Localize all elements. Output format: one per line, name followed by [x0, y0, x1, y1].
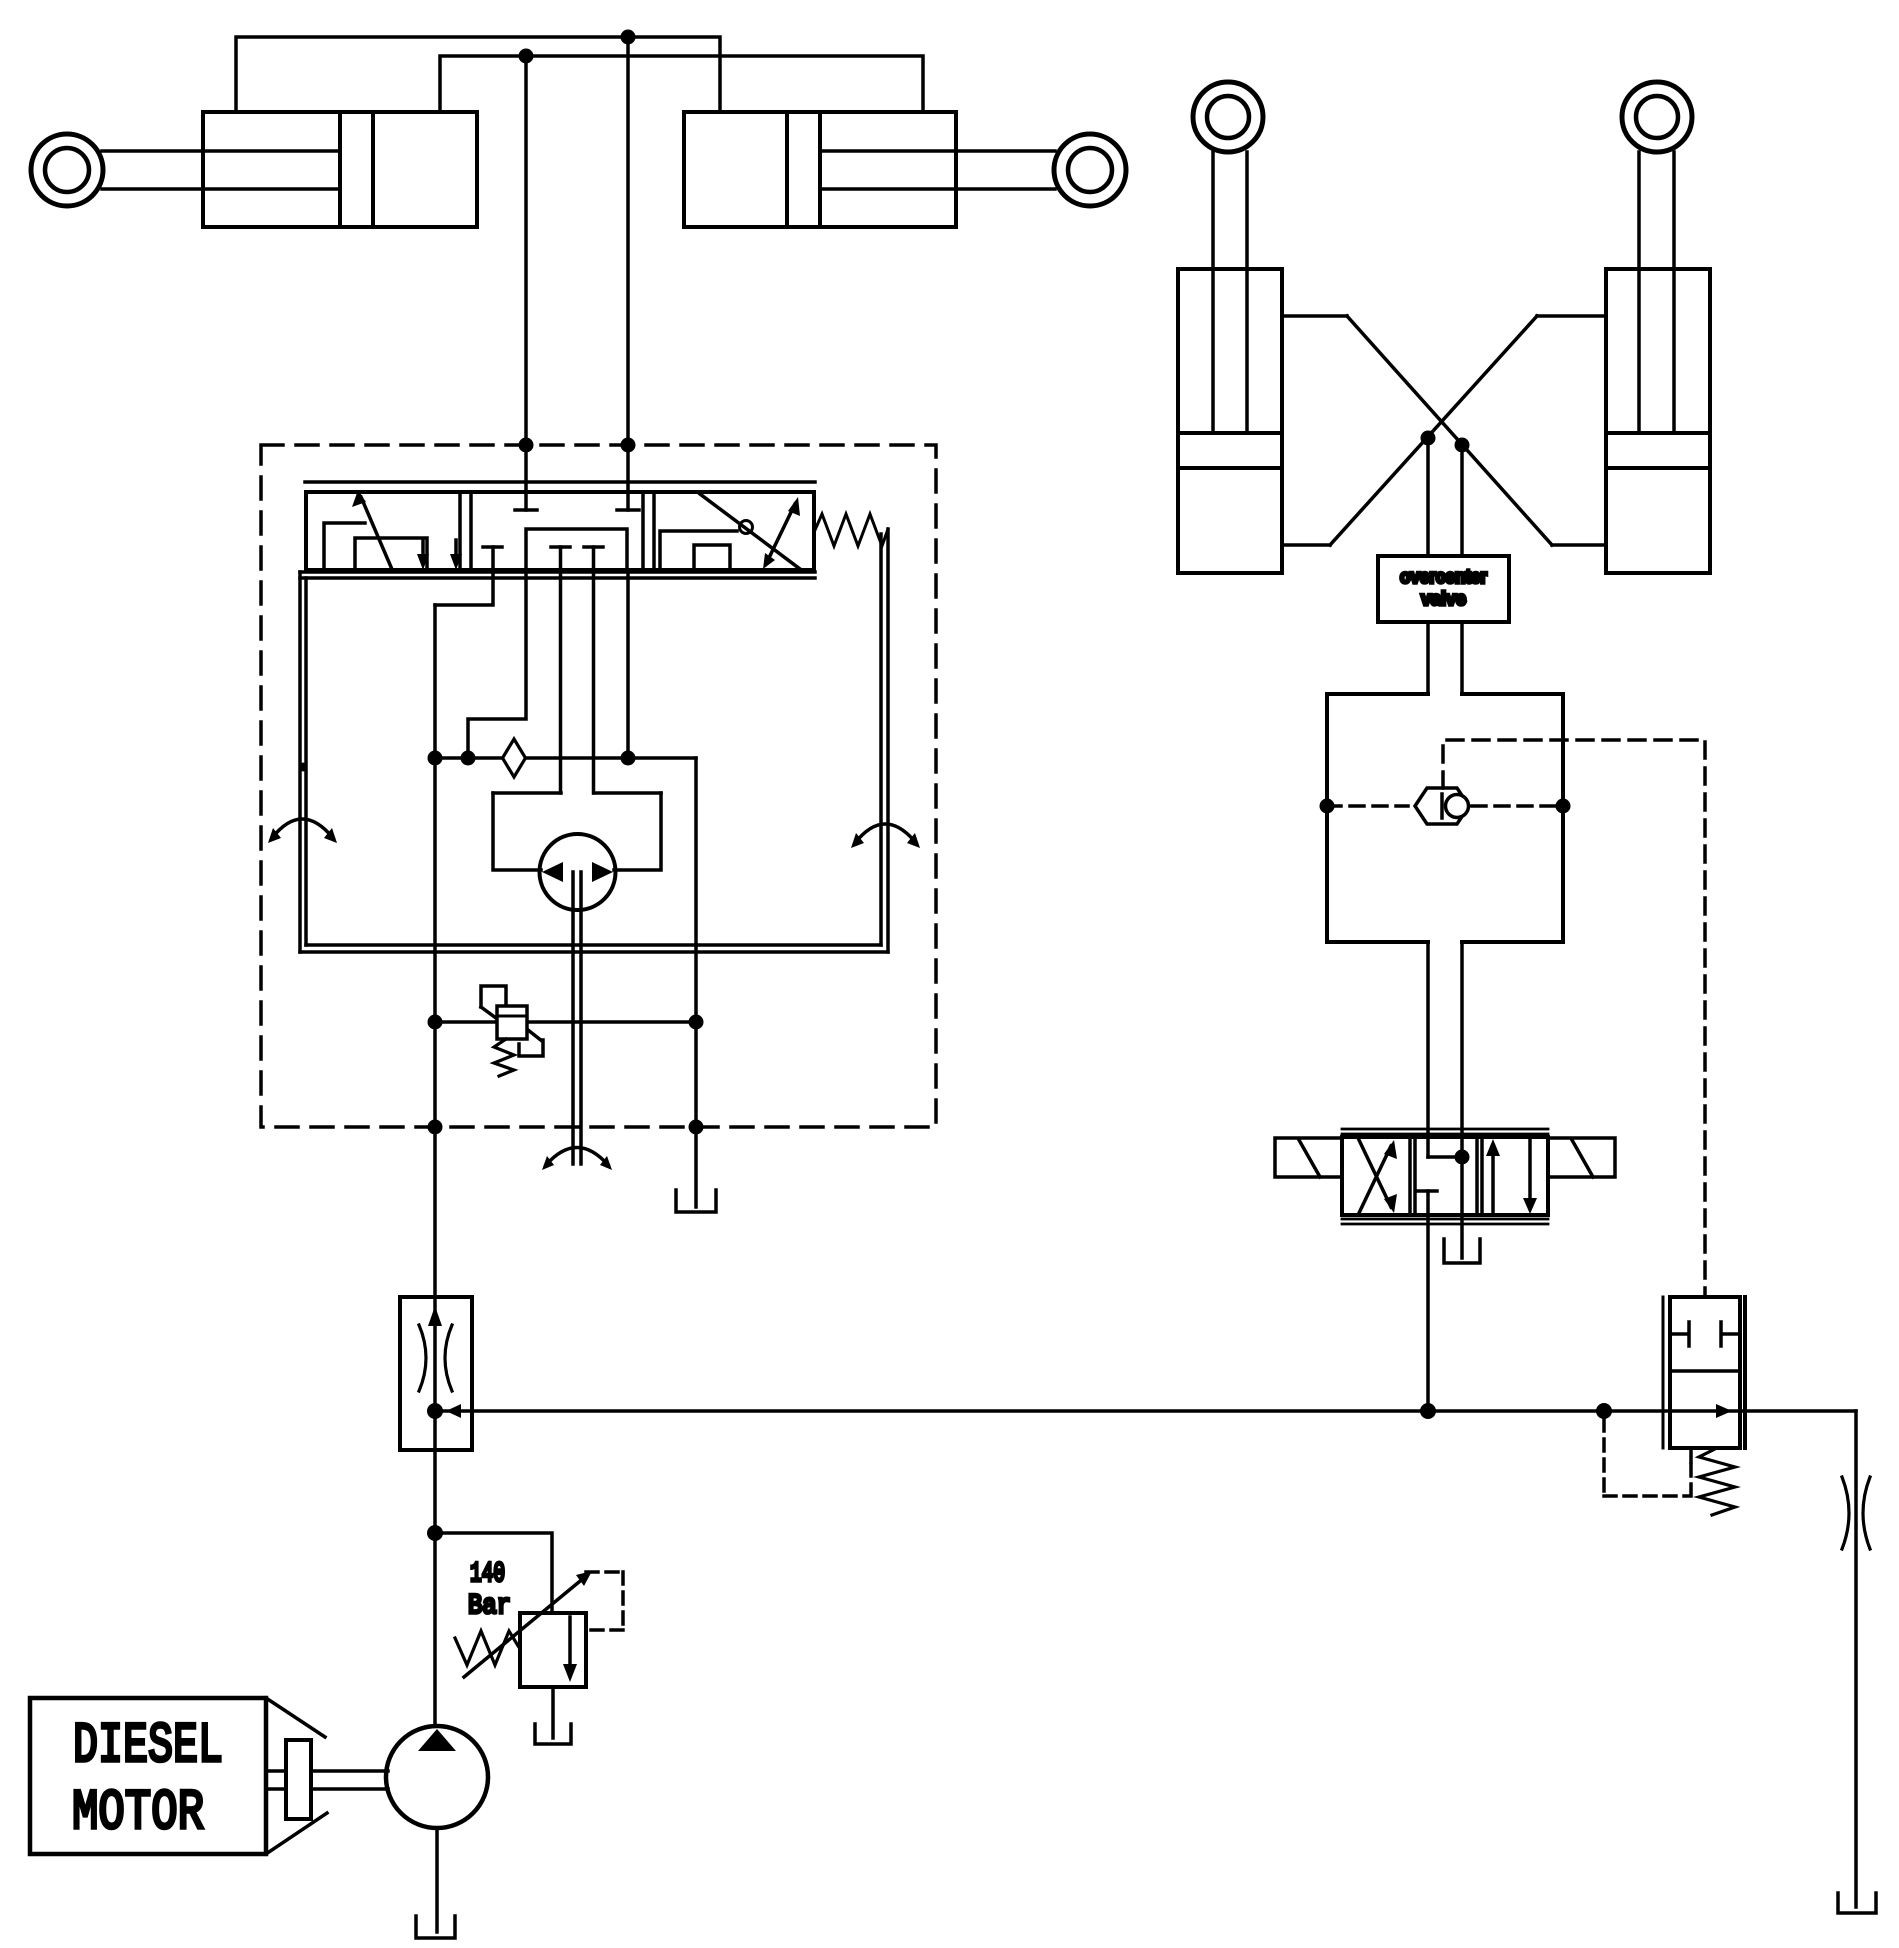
pump P body — [386, 1726, 488, 1828]
tank symbol T4 under DV1 — [1444, 1239, 1480, 1263]
node: tick on left housing edge — [299, 763, 308, 772]
wire: cross diagonal CYL3-top to CYL4-bottom — [1347, 316, 1552, 545]
cylinder CYL3 piston — [1178, 433, 1282, 468]
pilot check block housing — [1327, 694, 1563, 942]
node: junction relief gallery left — [428, 1015, 443, 1030]
wire: horizontal gallery with check valve — [435, 756, 696, 760]
wire: check block to directional valve — [1428, 942, 1462, 1258]
cylinder CYL1 piston — [340, 112, 373, 227]
valve V1 left section: pilot path — [324, 523, 365, 570]
flow control valve FC1 body — [400, 1297, 472, 1450]
valve V1: return spring — [815, 514, 888, 546]
relief valve RV2 pilot dashes — [586, 1572, 623, 1630]
wire: motor drain double line — [573, 872, 581, 1164]
compensator PC1: position divider — [1670, 1369, 1740, 1373]
node: junction inside FC1 — [427, 1403, 443, 1419]
valve V1 left section: down arrow 1 — [421, 540, 425, 562]
wire: cross diagonal CYL4-top to CYL3-bottom — [1330, 316, 1537, 545]
valve V1: proportional directional valve body — [306, 492, 814, 570]
directional valve DV1: left lever wing — [1275, 1138, 1342, 1177]
arrow into FC1 on main line — [446, 1404, 461, 1418]
wire: motor line b — [592, 547, 596, 793]
valve V1 centre: blocked port T for line B — [617, 508, 639, 512]
svg-text:140: 140 — [470, 1559, 505, 1590]
valve V1 right section: roller circle — [740, 521, 753, 534]
tank symbol T5 — [1838, 1893, 1876, 1913]
pilot line (dashed) inside block — [1327, 804, 1563, 808]
valve V1 centre: blocked port T for line A — [515, 508, 537, 512]
wire: centre port down to main line — [1426, 1191, 1430, 1411]
node: junction DV1 drop on main line — [1420, 1403, 1436, 1419]
valve V1 centre: port T motor a — [551, 545, 570, 549]
wire: pump suction — [435, 1828, 439, 1932]
shaft coupling — [286, 1740, 311, 1819]
directional valve DV1: right lever wing — [1548, 1138, 1615, 1177]
directional valve DV1: parallel arrows right section — [1491, 1146, 1495, 1215]
compensator PC1: flow arrow lower position — [1716, 1404, 1732, 1418]
metering motor M1 — [540, 834, 616, 910]
node: junction relief gallery right — [689, 1015, 704, 1030]
gerotor loop: side and bottom edges — [493, 793, 661, 870]
wire: main left drop x=435 — [433, 605, 437, 1726]
node: junction in valve centre — [1455, 1150, 1470, 1165]
valve V1 centre: inner box — [526, 529, 627, 570]
cylinder CYL3 barrel — [1178, 269, 1282, 573]
pilot operated check valve CV2 — [1415, 788, 1469, 824]
relief valve RV1 bottom-right flag — [519, 1040, 543, 1056]
node: junction gallery/P2 — [461, 751, 476, 766]
node: dot where line B crosses dashed top — [621, 438, 636, 453]
directional valve DV1: crossed arrows left section — [1359, 1146, 1391, 1213]
svg-text:DIESEL: DIESEL — [73, 1715, 223, 1779]
tank symbol T3 — [416, 1916, 455, 1938]
compensator PC1: pilot dashed bracket — [1604, 1419, 1691, 1496]
housing: bottom double rail — [300, 945, 888, 952]
directional valve DV1: section dividers — [1410, 1137, 1482, 1215]
restrictor R1 on right drop — [1842, 1477, 1870, 1549]
valve V1: section dividers — [460, 492, 654, 570]
cylinder CYL2 barrel — [684, 112, 956, 227]
cylinder CYL4 barrel — [1606, 269, 1710, 573]
valve V1: pilot rail above body — [305, 480, 815, 484]
node: pilot junction right — [1556, 799, 1571, 814]
wire: connector inside valve centre — [1428, 1155, 1462, 1159]
relief valve RV2 body — [520, 1613, 586, 1687]
cylinder CYL2 piston — [787, 112, 820, 227]
pilot dashed line to compensator — [1443, 740, 1705, 1297]
wire: port P2 down from valve, jog to junction — [468, 570, 526, 758]
cylinder CYL2 rod eye — [1054, 134, 1126, 206]
valve V1 centre: port T left — [483, 545, 502, 549]
wire: main pressure line to the right — [435, 1409, 1856, 1413]
wire: overcenter to check block — [1428, 622, 1462, 694]
svg-text:valve: valve — [1421, 589, 1466, 610]
cylinder CYL4 piston — [1606, 433, 1710, 468]
node: junction compensator pilot on main line — [1596, 1403, 1612, 1419]
flow control FC1: restrictor arcs — [419, 1325, 452, 1391]
overcenter valve box — [1378, 556, 1509, 622]
relief valve RV2 spring — [455, 1631, 520, 1665]
wire: line B down to steering valve — [626, 37, 630, 510]
valve V1 right section: long diagonal — [700, 494, 800, 569]
directional valve DV1: bottom rails — [1342, 1219, 1548, 1224]
directional valve DV1: body — [1342, 1137, 1548, 1215]
housing: upper rails below valve — [300, 572, 815, 578]
wire: motor line a — [559, 547, 563, 793]
relief valve RV1 top-left flag — [481, 986, 506, 1007]
gerotor loop: top edge segments — [493, 791, 661, 795]
wire: CYL3 lower port stub — [1282, 543, 1330, 547]
mechanical rotation arrow left — [272, 819, 333, 838]
valve V1 left section: proportional arrow — [361, 497, 391, 567]
compensator PC1: spring — [1699, 1448, 1735, 1515]
diesel motor box — [30, 1698, 266, 1854]
tank symbol T2 — [535, 1724, 571, 1744]
wire: right drop to tank — [694, 758, 698, 1207]
mechanical rotation arrow on drain — [546, 1148, 608, 1166]
cylinder CYL4 rod — [1639, 152, 1674, 433]
wire: lower cross line (left cap port to right rod port) — [440, 56, 923, 112]
cylinder CYL1 rod eye — [31, 134, 103, 206]
valve V1 left section: solenoid box — [355, 538, 427, 570]
directional valve DV1: top rails — [1342, 1129, 1548, 1134]
check valve CV1 (diamond) — [503, 739, 526, 777]
cylinder CYL2 rod — [820, 151, 1055, 189]
wire: CYL4 lower port stub — [1552, 543, 1606, 547]
node: dot where tank drop crosses dashed bottom — [689, 1120, 704, 1135]
wire: RV2 to tank — [551, 1687, 555, 1738]
flow control FC1: up arrow — [428, 1306, 442, 1326]
node: junction on diagonal (right drop) — [1455, 438, 1470, 453]
svg-text:MOTOR: MOTOR — [72, 1782, 204, 1846]
compensator valve PC1: outer double edges — [1662, 1297, 1665, 1448]
cylinder CYL4 rod eye — [1622, 82, 1692, 152]
node: dot where main drop crosses dashed bottom — [428, 1120, 443, 1135]
node: junction to relief branch — [427, 1525, 443, 1541]
wire: CYL4 upper port stub — [1537, 314, 1606, 318]
cylinder CYL1 barrel — [203, 112, 477, 227]
wire: line A down to steering valve — [524, 56, 528, 510]
valve V1 left section: down arrow 2 — [454, 540, 458, 562]
node: junction on upper cross line — [621, 30, 636, 45]
housing: right double edge (under spring) — [881, 529, 888, 952]
cylinder CYL3 rod — [1213, 152, 1247, 433]
wire: main line down right side — [1854, 1411, 1858, 1907]
compensator PC1: blocked ports upper position — [1670, 1322, 1740, 1346]
cylinder CYL1 rod — [102, 151, 340, 189]
relief valve RV1 body — [497, 1006, 527, 1039]
housing: left double edge — [300, 572, 306, 952]
mechanical rotation arrow right — [855, 824, 916, 843]
wire: port P1 down from valve, jog to main drop — [435, 547, 493, 605]
wire: branch to system relief valve — [435, 1533, 552, 1613]
wire: drops to overcenter valve — [1428, 438, 1462, 556]
relief valve RV2 adjusting arrow — [464, 1577, 585, 1677]
motor shaft brackets — [266, 1698, 327, 1854]
wire: CYL3 upper port stub — [1282, 314, 1347, 318]
svg-text:overcenter: overcenter — [1400, 567, 1488, 588]
pump P triangle — [418, 1729, 456, 1751]
svg-text:Bar: Bar — [468, 1591, 511, 1622]
node: dot where line A crosses dashed top — [519, 438, 534, 453]
node: junction gallery/main drop — [428, 751, 443, 766]
valve V1 right section: arrow diagonal — [766, 504, 795, 564]
node: pilot junction left — [1320, 799, 1335, 814]
relief valve RV1 spring — [494, 1039, 514, 1076]
wire: upper cross line (left rod port to right cap port) — [236, 37, 720, 112]
enclosure: dashed boundary box — [261, 445, 936, 1127]
relief valve RV2 internal arrow — [568, 1617, 572, 1670]
tank symbol T1 — [676, 1190, 716, 1212]
valve V1 right section: solenoid box — [694, 545, 730, 570]
node: junction gallery/P3 — [621, 751, 636, 766]
node: junction on lower cross line — [519, 49, 534, 64]
valve V1 right section: pilot path — [660, 531, 737, 570]
node: junction on diagonal (left drop) — [1421, 431, 1436, 446]
motor shaft double line — [266, 1771, 388, 1789]
valve V1 centre: port T motor b — [584, 545, 603, 549]
wire: relief gallery — [435, 1020, 696, 1024]
wire: port P3 straight down — [626, 570, 630, 758]
cylinder CYL3 rod eye — [1193, 82, 1263, 152]
directional valve DV1: blocked port T centre — [1418, 1189, 1437, 1193]
